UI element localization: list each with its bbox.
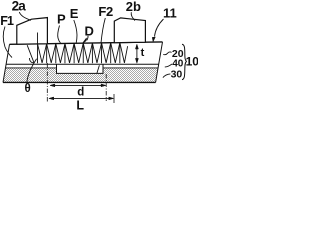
left sheared edge of stack bbox=[3, 44, 10, 82]
leader theta bbox=[27, 59, 37, 84]
leader 2a bbox=[19, 12, 31, 20]
svg-text:F2: F2 bbox=[98, 4, 113, 19]
svg-text:θ: θ bbox=[25, 83, 31, 95]
svg-text:d: d bbox=[77, 87, 84, 99]
electrode block 2b bbox=[114, 18, 145, 43]
centerline left (dash-dot) bbox=[46, 63, 48, 102]
dimension t: vertical double arrow bbox=[135, 44, 138, 63]
leader F2 bbox=[101, 18, 105, 43]
svg-text:F1: F1 bbox=[0, 14, 14, 28]
leader 2b bbox=[131, 12, 135, 20]
leader F1 bbox=[3, 27, 12, 58]
bottom line of substrate bbox=[3, 81, 156, 83]
svg-text:t: t bbox=[141, 47, 145, 59]
zigzag region E inside layer 20 bbox=[27, 33, 127, 64]
substrate 30 stippled body bbox=[3, 42, 163, 83]
squiggle leader for 20 bbox=[163, 52, 171, 55]
svg-text:2a: 2a bbox=[12, 0, 27, 13]
boundary line bottom of layer 20 bbox=[6, 63, 159, 65]
svg-text:E: E bbox=[70, 6, 79, 21]
leader D with arrowhead bbox=[87, 36, 88, 40]
svg-text:D: D bbox=[85, 24, 94, 39]
boundary line top of layer 30 (left of cavity) bbox=[6, 67, 57, 69]
leader 30 bbox=[163, 74, 171, 78]
leader P bbox=[58, 26, 61, 44]
boundary line top of layer 30 (right of cavity) bbox=[103, 67, 158, 69]
electrode block 2a bbox=[17, 18, 48, 45]
slanted inner wall line of cavity bbox=[97, 65, 100, 73]
centerline right (dash-dot) bbox=[105, 74, 107, 101]
leader 40 bbox=[165, 64, 172, 67]
line inside 2a (zigzag start continues) bbox=[37, 33, 39, 44]
cavity (white recess in 40/30 under membrane) bbox=[57, 64, 104, 73]
leader E bbox=[74, 20, 77, 43]
svg-text:2b: 2b bbox=[126, 0, 141, 14]
svg-text:11: 11 bbox=[163, 6, 177, 21]
svg-text:30: 30 bbox=[171, 69, 183, 81]
dimension L bbox=[49, 97, 114, 100]
top surface line of layer 20 bbox=[10, 42, 163, 44]
svg-text:P: P bbox=[57, 12, 66, 27]
svg-text:10: 10 bbox=[186, 55, 198, 69]
dimension d bbox=[50, 84, 106, 87]
brace for 10 bbox=[182, 44, 186, 79]
leader 11 with arrowhead bbox=[155, 19, 164, 37]
svg-text:L: L bbox=[76, 99, 84, 111]
right sheared edge of stack bbox=[156, 42, 163, 83]
tick at right end of L bbox=[113, 94, 115, 103]
